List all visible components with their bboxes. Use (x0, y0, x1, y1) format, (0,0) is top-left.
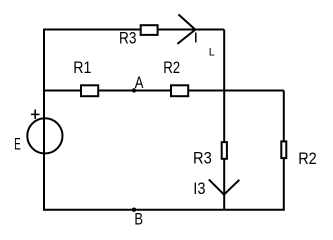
svg-text:R2: R2 (298, 149, 317, 168)
svg-text:L: L (209, 47, 215, 59)
svg-text:R3: R3 (193, 149, 212, 168)
plus sign (31, 110, 40, 120)
wire middle vertical (223, 30, 225, 210)
resistor R2 (middle) (171, 85, 188, 96)
resistor R2 (vertical right) (281, 141, 286, 158)
wire top horizontal (44, 29, 224, 31)
wire middle horizontal (44, 90, 284, 92)
wire right vertical (283, 91, 285, 210)
wire bottom horizontal (43, 209, 285, 211)
svg-text:R2: R2 (163, 58, 180, 77)
resistor R3 (vertical) (222, 142, 227, 159)
node B (132, 208, 136, 212)
current arrow IL (177, 14, 195, 44)
svg-text:R1: R1 (73, 58, 91, 77)
svg-text:I3: I3 (193, 179, 205, 198)
svg-text:A: A (135, 73, 144, 92)
wire left vertical (43, 29, 45, 211)
node A (132, 88, 136, 92)
resistor R3 (top) (141, 25, 158, 35)
resistor R1 (81, 85, 98, 96)
voltage source E (27, 118, 62, 153)
svg-text:R3: R3 (119, 29, 136, 48)
svg-text:B: B (134, 209, 143, 228)
current arrow I3 (209, 179, 240, 194)
svg-text:E: E (14, 134, 21, 153)
label I (195, 33, 197, 43)
